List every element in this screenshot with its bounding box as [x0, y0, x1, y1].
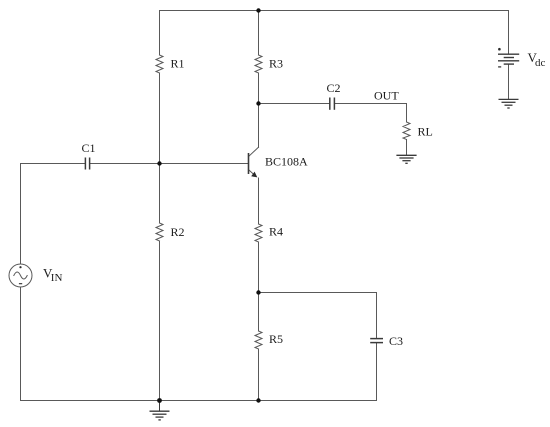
svg-text:IN: IN: [51, 272, 63, 284]
svg-text:OUT: OUT: [374, 89, 399, 103]
svg-text:C1: C1: [82, 141, 96, 155]
svg-text:R3: R3: [269, 57, 283, 71]
svg-text:R5: R5: [269, 332, 283, 346]
svg-text:C3: C3: [389, 334, 403, 348]
svg-text:BC108A: BC108A: [265, 155, 308, 169]
svg-text:C2: C2: [327, 81, 341, 95]
svg-text:R2: R2: [171, 225, 185, 239]
svg-text:R4: R4: [269, 225, 283, 239]
svg-text:RL: RL: [418, 125, 433, 139]
svg-text:R1: R1: [171, 57, 185, 71]
svg-text:dc: dc: [535, 57, 546, 69]
